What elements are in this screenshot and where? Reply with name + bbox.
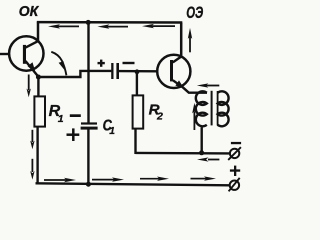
transformer T core: [211, 91, 213, 126]
polarity - of C2: [123, 62, 135, 64]
current arrow bottom rail 3: [140, 177, 169, 181]
label R2: [149, 101, 163, 122]
junction top rail / C1 branch: [86, 20, 91, 25]
label plus terminal: [230, 166, 240, 176]
polarity + of C1: [67, 128, 80, 141]
current arrow up beside primary: [192, 103, 196, 130]
resistor R1: [34, 77, 45, 184]
current arrow bottom rail 4: [191, 176, 217, 180]
wire emitter Q2 to transformer: [183, 88, 207, 93]
terminal output plus: [229, 178, 240, 191]
wire C2 to base Q2: [119, 70, 158, 73]
wire primary bottom to mid rail: [200, 127, 202, 152]
capacitor C1: [81, 122, 98, 129]
label OK (common-collector stage): [19, 4, 39, 20]
terminal output minus: [228, 147, 241, 160]
current arrow down beside R1 lower: [30, 159, 34, 180]
transistor Q1: [9, 36, 43, 76]
polarity + of C2: [98, 60, 105, 67]
current arrow down below Q1: [27, 75, 31, 98]
junction mid rail / primary: [199, 150, 204, 155]
current arrow top rail 1: [48, 24, 79, 28]
transistor Q2: [157, 55, 190, 88]
wire input to base Q1: [0, 53, 9, 55]
wire mid rail: [136, 152, 231, 155]
node emitter Q1 junction: [36, 75, 41, 80]
capacitor C2 coupling: [111, 63, 119, 79]
current arrow left above emitter wire: [197, 83, 220, 87]
current arrow top rail 2: [97, 24, 128, 28]
svg-text:ОК: ОК: [19, 4, 39, 20]
wire top rail: [37, 21, 182, 24]
wire collector Q2 up: [180, 23, 183, 57]
label C1: [103, 117, 116, 136]
svg-text:1: 1: [58, 113, 64, 125]
polarity - of C1: [70, 114, 81, 117]
wire collector Q1 up: [37, 21, 40, 41]
transformer T primary winding: [196, 91, 207, 126]
current arrow bottom rail 1: [44, 178, 76, 182]
current arrow bottom rail 2: [92, 177, 124, 181]
current arrow left below mid rail: [197, 157, 219, 161]
svg-text:2: 2: [156, 111, 163, 123]
current arrow down beside R1 upper: [30, 130, 34, 149]
current arrow up beside collector Q2: [188, 28, 192, 52]
junction bottom rail / C1: [86, 182, 91, 187]
wire C1 branch from top rail: [87, 22, 89, 122]
junction base Q2 / R2: [135, 69, 140, 74]
label OE (common-emitter stage): [186, 4, 203, 22]
transformer T secondary winding: [218, 91, 229, 126]
label R1: [49, 103, 64, 125]
svg-text:1: 1: [109, 126, 115, 137]
wire C1 to bottom rail: [87, 129, 89, 184]
wire bottom rail: [36, 183, 230, 185]
svg-text:ОЭ: ОЭ: [186, 4, 203, 22]
label minus terminal: [231, 142, 241, 144]
wire emitter Q1 to C2: [38, 71, 111, 77]
curved signal arrow at Q1: [51, 52, 66, 76]
resistor R2: [133, 72, 144, 154]
current arrow top rail 3: [142, 24, 175, 28]
